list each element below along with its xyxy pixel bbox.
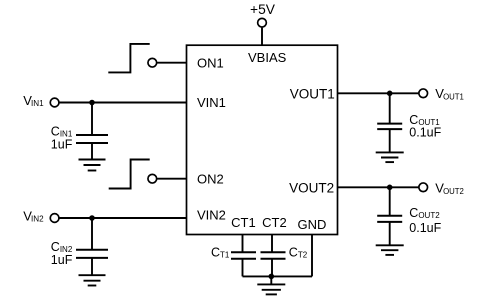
- VIN1 terminal circle: [50, 98, 59, 107]
- svg-text:VIN1: VIN1: [23, 93, 44, 108]
- svg-text:1uF: 1uF: [51, 253, 73, 267]
- wire CT2 pin: [271, 235, 273, 253]
- VIN2 terminal circle: [50, 214, 59, 223]
- VOUT2 terminal circle: [419, 183, 428, 192]
- wire ON2: [157, 178, 187, 180]
- junction node VIN1: [89, 100, 95, 106]
- svg-text:VIN2: VIN2: [23, 209, 44, 224]
- ON1 terminal circle: [148, 58, 157, 67]
- junction node bottom rail: [269, 274, 275, 280]
- wire bottom rail: [243, 275, 313, 277]
- wire +5V to VBIAS: [261, 28, 263, 46]
- svg-text:CIN1: CIN1: [51, 124, 73, 138]
- svg-text:GND: GND: [297, 217, 326, 232]
- ON2 terminal circle: [148, 174, 157, 183]
- wire VIN2: [59, 217, 186, 219]
- svg-text:VOUT2: VOUT2: [289, 181, 334, 196]
- junction node VOUT2: [387, 185, 393, 191]
- ground (COUT1): [376, 152, 404, 162]
- svg-text:ON2: ON2: [197, 171, 224, 186]
- wire GND pin: [311, 235, 313, 277]
- svg-text:CT2: CT2: [289, 245, 308, 259]
- wire VIN1: [59, 102, 186, 104]
- svg-text:CIN2: CIN2: [51, 240, 73, 254]
- svg-text:CT2: CT2: [262, 215, 287, 230]
- svg-text:ON1: ON1: [197, 56, 224, 71]
- svg-text:0.1uF: 0.1uF: [409, 126, 441, 140]
- svg-text:VIN2: VIN2: [197, 208, 226, 223]
- svg-text:+5V: +5V: [250, 2, 276, 17]
- capacitor CT1: [231, 252, 256, 276]
- ground (CIN2): [79, 275, 106, 285]
- +5V terminal circle: [258, 18, 267, 27]
- step waveform symbol for ON2: [109, 160, 150, 189]
- svg-text:VBIAS: VBIAS: [248, 50, 287, 65]
- IC U1: [187, 45, 338, 234]
- ground (COUT2): [376, 245, 404, 255]
- step waveform symbol for ON1: [108, 44, 149, 73]
- svg-text:1uF: 1uF: [51, 137, 73, 151]
- wire VOUT1: [338, 92, 419, 94]
- svg-text:VOUT1: VOUT1: [435, 86, 464, 102]
- svg-text:CT1: CT1: [231, 215, 256, 230]
- wire CT1 pin: [242, 235, 244, 253]
- capacitor COUT1: [377, 93, 402, 152]
- capacitor CT2: [261, 252, 286, 276]
- junction node VOUT1: [387, 91, 393, 97]
- svg-text:VOUT2: VOUT2: [435, 180, 464, 196]
- junction node VIN2: [89, 215, 95, 221]
- svg-text:VIN1: VIN1: [197, 95, 226, 110]
- wire VOUT2: [338, 186, 419, 188]
- svg-text:CT1: CT1: [211, 245, 230, 259]
- capacitor COUT2: [377, 187, 402, 245]
- capacitor CIN2: [76, 218, 108, 275]
- svg-text:VOUT1: VOUT1: [290, 86, 335, 101]
- VOUT1 terminal circle: [419, 89, 428, 98]
- ground (main): [257, 284, 285, 294]
- svg-text:COUT2: COUT2: [409, 206, 440, 220]
- svg-text:0.1uF: 0.1uF: [409, 221, 441, 235]
- ground (CIN1): [79, 160, 106, 171]
- wire junction to ground: [270, 276, 272, 284]
- wire ON1: [157, 62, 187, 64]
- capacitor CIN1: [76, 103, 108, 160]
